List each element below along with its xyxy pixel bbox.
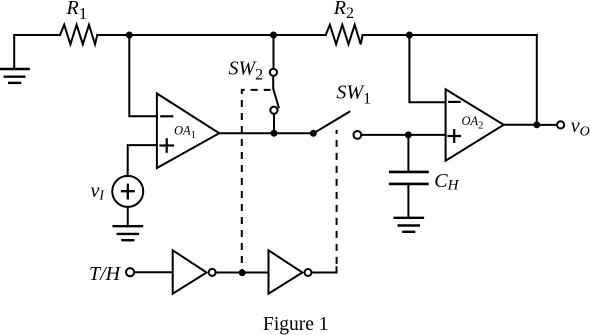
wire OA1 noninverting input branch [128, 145, 157, 176]
resistor R2 [326, 25, 363, 45]
capacitor CH [390, 135, 427, 218]
node C: R2 right / feedback node [406, 32, 413, 39]
node F: hold node (CH / OA2 noninverting) [405, 131, 412, 138]
ground (left, input ground) [0, 35, 28, 83]
wire vI to ground [127, 207, 129, 226]
ground (below CH) [395, 218, 423, 232]
terminal T/H [126, 268, 134, 276]
dashed control line SW2 [242, 90, 272, 270]
node H: inverter junction / SW2 control tap [239, 269, 246, 276]
wire feedback right vertical [536, 35, 538, 125]
wire OA2 output [504, 124, 537, 126]
wire inverter 2 output to SW1 control [312, 267, 337, 272]
wire hold node to OA2 noninverting input [408, 134, 445, 136]
inverter U1 [173, 250, 216, 293]
source vI [112, 176, 143, 207]
svg-text:T/H: T/H [89, 263, 122, 285]
wire top rail right segment [363, 34, 537, 36]
wire top rail left segment [14, 34, 60, 36]
node A: R1 right / OA1 inverting branch [126, 32, 133, 39]
wire OA1 output rail [219, 132, 313, 134]
wire output node to terminal [537, 124, 557, 126]
wire OA1 inverting input branch [129, 35, 157, 116]
node D: SW2 junction on OA1 output [271, 130, 278, 137]
svg-text:Figure 1: Figure 1 [263, 314, 329, 335]
wire top rail middle segment [97, 34, 325, 36]
terminal vO [557, 121, 564, 128]
wire inverter 1 to inverter 2 [216, 272, 269, 274]
wire T/H to inverter 1 [134, 271, 172, 273]
wire SW2 bottom stub [273, 114, 275, 133]
dashed control line SW1 [336, 130, 338, 268]
inverter U2 [269, 250, 312, 293]
node E: SW1 pivot [310, 130, 317, 137]
ground (below vI) [114, 226, 142, 240]
wire SW1 contact to hold node [361, 134, 408, 136]
switch SW2 [270, 69, 279, 114]
node B: SW2 top branch tap [270, 32, 277, 39]
switch SW1 [313, 112, 361, 139]
op-amp OA1 [157, 94, 219, 169]
op-amp OA2 [446, 89, 504, 160]
wire OA2 inverting input branch [409, 35, 445, 102]
node G: output node [533, 121, 540, 128]
resistor R1 [60, 25, 97, 45]
wire SW2 top branch [273, 35, 275, 69]
